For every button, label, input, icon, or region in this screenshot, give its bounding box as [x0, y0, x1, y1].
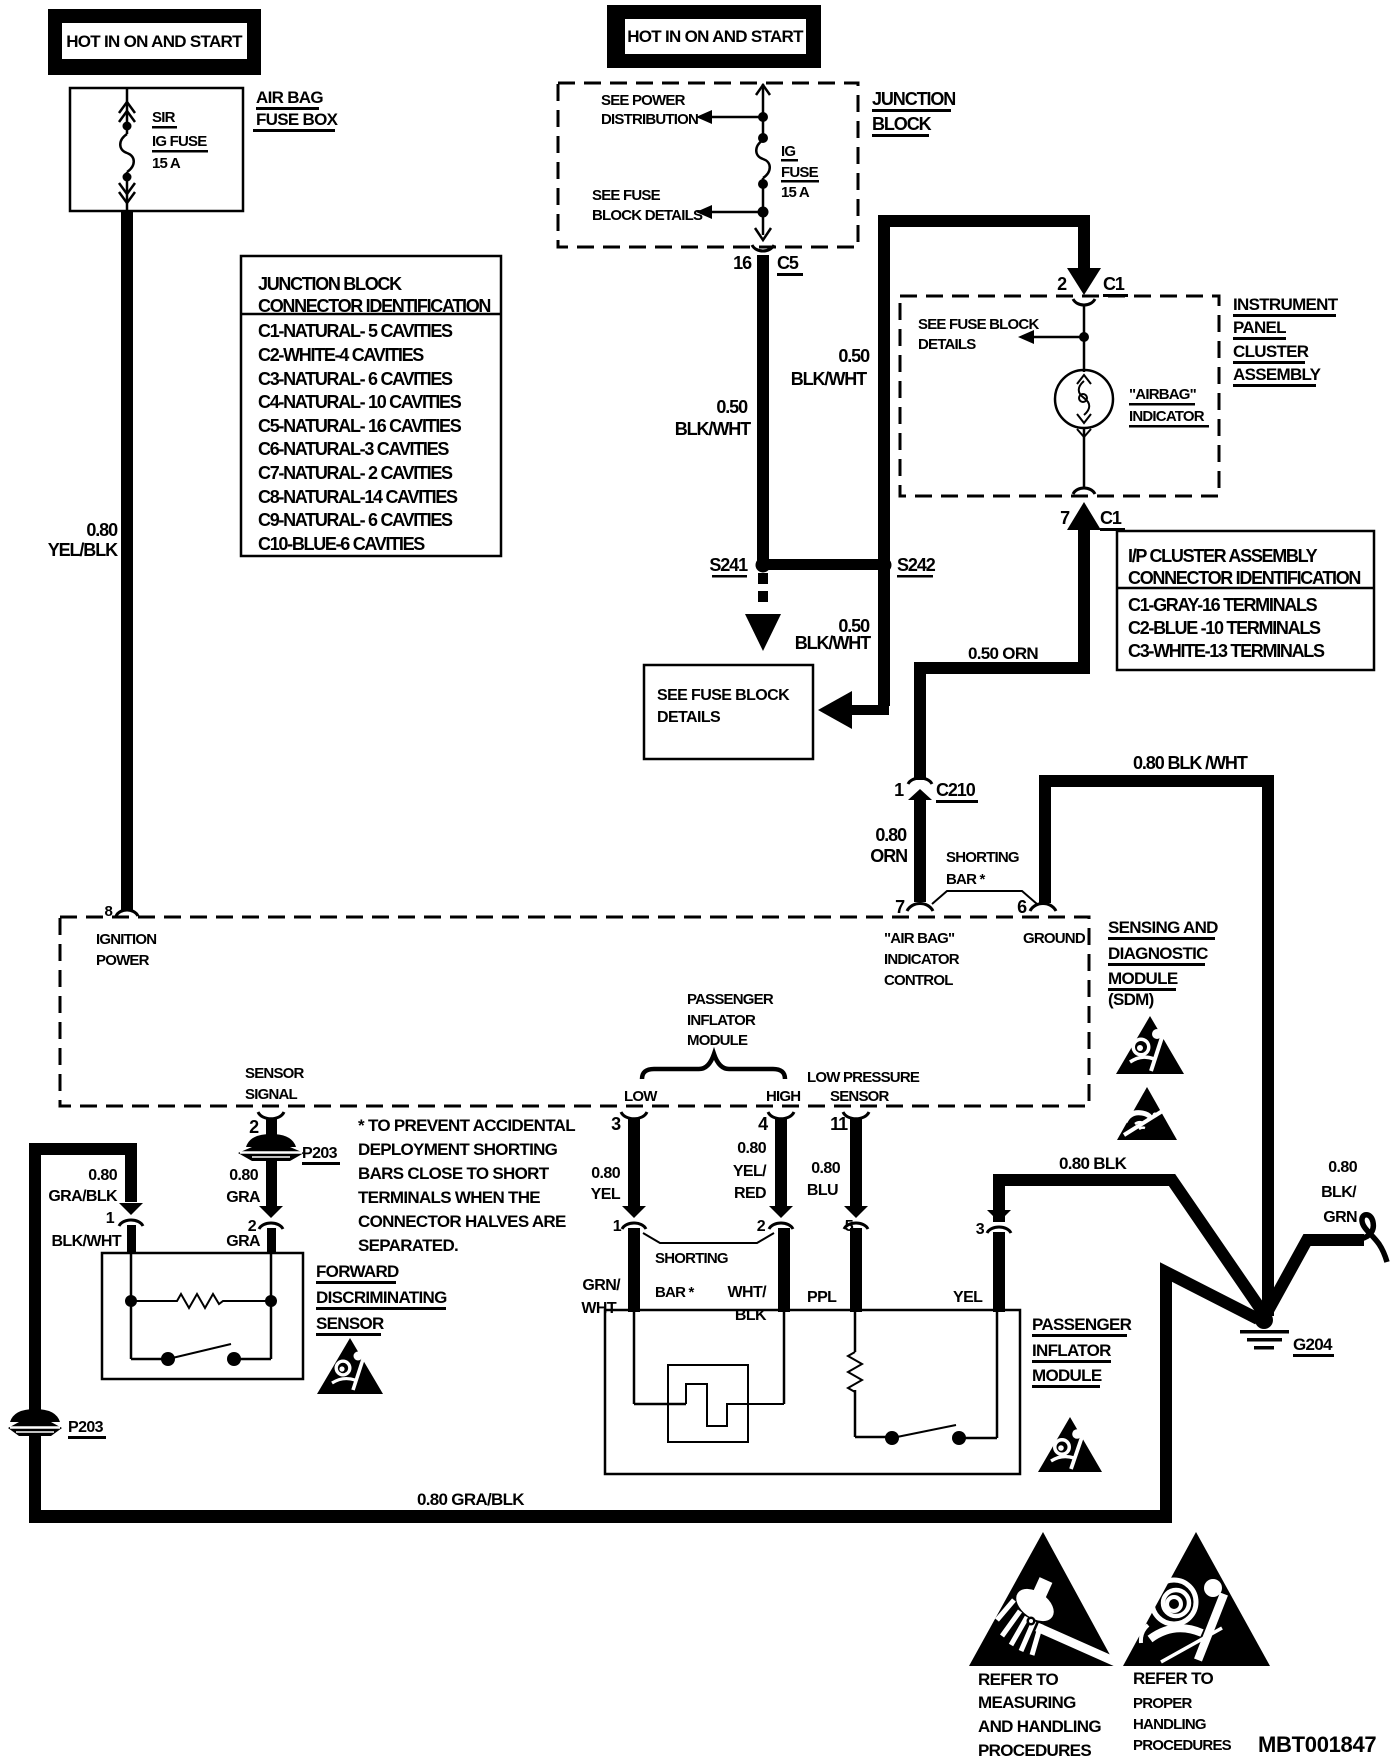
svg-text:1: 1	[613, 1218, 622, 1235]
node S242	[877, 555, 936, 578]
svg-text:FUSE BOX: FUSE BOX	[256, 110, 339, 129]
svg-text:2: 2	[1057, 274, 1067, 294]
SDM pin 4 cup (HIGH)	[758, 1112, 794, 1134]
svg-text:G204: G204	[1293, 1335, 1333, 1354]
svg-text:C210: C210	[936, 780, 976, 800]
svg-text:C10-BLUE-6 CAVITIES: C10-BLUE-6 CAVITIES	[258, 534, 425, 554]
wire into inflator pin1	[628, 1228, 640, 1312]
shorting bar symbol (inflator)	[643, 1233, 774, 1301]
label AIRBAG INDICATOR	[1129, 386, 1209, 428]
svg-text:BAR *: BAR *	[946, 871, 985, 888]
svg-text:"AIRBAG": "AIRBAG"	[1129, 386, 1197, 403]
forward discriminating sensor box	[102, 1253, 303, 1379]
label FORWARD DISCRIMINATING SENSOR	[316, 1262, 447, 1336]
wire 0.80 GRA	[226, 1160, 277, 1206]
svg-text:PPL: PPL	[807, 1289, 837, 1306]
wire 0.80 BLK (inflator pin3 to G204)	[999, 1154, 1264, 1314]
svg-text:BAR *: BAR *	[655, 1284, 694, 1301]
wire 0.80 BLU	[807, 1118, 862, 1206]
svg-text:BARS CLOSE TO SHORT: BARS CLOSE TO SHORT	[358, 1164, 550, 1183]
pin 7 cup at cluster bottom	[1073, 488, 1095, 494]
svg-text:C4-NATURAL- 10 CAVITIES: C4-NATURAL- 10 CAVITIES	[258, 392, 462, 412]
arrow see power distribution	[601, 92, 763, 128]
svg-text:15 A: 15 A	[152, 155, 181, 172]
svg-text:HANDLING: HANDLING	[1133, 1716, 1206, 1733]
svg-text:GRA/BLK: GRA/BLK	[48, 1188, 118, 1205]
wire inside cluster	[1083, 305, 1086, 372]
svg-text:C5-NATURAL- 16 CAVITIES: C5-NATURAL- 16 CAVITIES	[258, 416, 462, 436]
svg-text:GRN/: GRN/	[582, 1277, 621, 1294]
svg-text:PASSENGER: PASSENGER	[687, 991, 774, 1008]
svg-text:C1: C1	[1100, 508, 1122, 528]
svg-text:0.80: 0.80	[229, 1167, 258, 1184]
pin 6 cup at SDM top	[1017, 897, 1056, 917]
svg-text:BLK/WHT: BLK/WHT	[791, 369, 867, 389]
wire 0.80 YEL/BLK	[48, 211, 133, 911]
svg-text:YEL: YEL	[953, 1289, 983, 1306]
svg-text:CONNECTOR IDENTIFICATION: CONNECTOR IDENTIFICATION	[1128, 568, 1360, 588]
svg-text:SENSOR: SENSOR	[245, 1065, 305, 1082]
connector pair pin 1 GRN/WHT	[581, 1206, 646, 1317]
svg-text:0.50: 0.50	[716, 397, 748, 417]
see fuse block details box	[644, 665, 813, 759]
svg-text:C7-NATURAL- 2 CAVITIES: C7-NATURAL- 2 CAVITIES	[258, 463, 453, 483]
svg-text:C1-NATURAL- 5 CAVITIES: C1-NATURAL- 5 CAVITIES	[258, 321, 453, 341]
dashed wire stub below S241	[758, 573, 768, 602]
svg-text:INFLATOR: INFLATOR	[687, 1012, 756, 1029]
svg-text:DIAGNOSTIC: DIAGNOSTIC	[1108, 944, 1208, 963]
svg-text:YEL: YEL	[591, 1186, 621, 1203]
svg-text:IG FUSE: IG FUSE	[152, 133, 207, 150]
svg-text:S242: S242	[897, 555, 936, 575]
label LOW PRESSURE SENSOR	[807, 1069, 920, 1105]
svg-text:SENSOR: SENSOR	[830, 1088, 890, 1105]
ground G204	[1240, 1311, 1334, 1357]
svg-text:PROPER: PROPER	[1133, 1695, 1193, 1712]
svg-text:INDICATOR: INDICATOR	[1129, 408, 1205, 425]
node S241	[709, 555, 770, 578]
svg-text:C5: C5	[777, 253, 799, 273]
hot-in-on-and-start banner 1	[48, 9, 261, 75]
junction dot in cluster	[1079, 332, 1089, 342]
svg-text:SHORTING: SHORTING	[655, 1250, 728, 1267]
svg-text:2: 2	[249, 1117, 259, 1137]
svg-text:0.80: 0.80	[1328, 1159, 1357, 1176]
wire junction block to cluster (BLK/WHT riser)	[791, 221, 1084, 563]
svg-text:SEE FUSE BLOCK: SEE FUSE BLOCK	[918, 316, 1039, 333]
svg-text:CLUSTER: CLUSTER	[1233, 342, 1309, 361]
SDM pin labels	[96, 931, 156, 969]
wire into inflator pin3	[993, 1232, 1005, 1312]
label SENSOR SIGNAL	[245, 1065, 305, 1103]
svg-text:FORWARD: FORWARD	[316, 1262, 399, 1281]
forward sensor internals	[125, 1253, 277, 1366]
svg-text:1: 1	[894, 780, 904, 800]
svg-text:RED: RED	[734, 1185, 766, 1202]
connector pair pin 2 GRA	[226, 1206, 283, 1250]
connector C1 pin 2 label	[1057, 274, 1128, 297]
shorting bar symbol	[932, 849, 1037, 904]
wire into inflator pin5	[850, 1228, 862, 1312]
svg-text:1: 1	[106, 1210, 115, 1227]
wire S241 to S242	[763, 559, 884, 570]
svg-text:2: 2	[757, 1218, 766, 1235]
junction block connector identification table	[241, 256, 501, 556]
svg-text:16: 16	[733, 253, 752, 273]
label INSTRUMENT PANEL CLUSTER ASSEMBLY	[1233, 295, 1339, 387]
svg-text:ORN: ORN	[870, 846, 907, 866]
switch (forward sensor)	[161, 1352, 175, 1366]
svg-text:* TO PREVENT ACCIDENTAL: * TO PREVENT ACCIDENTAL	[358, 1116, 575, 1135]
air bag fuse box	[70, 88, 243, 211]
connector C5 pin 16	[733, 245, 803, 276]
svg-text:PASSENGER: PASSENGER	[1032, 1315, 1132, 1334]
wire 0.80 ORN	[870, 798, 926, 902]
wire into inflator pin2	[778, 1228, 790, 1312]
bottom wire 0.80 GRA/BLK	[29, 1490, 1172, 1523]
esd warning triangle (airbag) at SDM	[1116, 1016, 1184, 1074]
svg-text:INFLATOR: INFLATOR	[1032, 1341, 1111, 1360]
svg-text:BLU: BLU	[807, 1182, 838, 1199]
svg-text:0.80 BLK /WHT: 0.80 BLK /WHT	[1133, 753, 1248, 773]
svg-text:7: 7	[1060, 508, 1070, 528]
svg-text:INSTRUMENT: INSTRUMENT	[1233, 295, 1339, 314]
label PASSENGER INFLATOR MODULE	[1032, 1315, 1132, 1388]
svg-text:"AIR BAG": "AIR BAG"	[884, 930, 955, 947]
svg-text:JUNCTION: JUNCTION	[872, 89, 955, 109]
wire riser from bottom wire to G204	[1166, 1272, 1258, 1516]
svg-text:P203: P203	[68, 1419, 104, 1436]
svg-text:0.80: 0.80	[86, 520, 118, 540]
connector C210 pin 1	[894, 778, 978, 803]
svg-text:HOT IN ON AND START: HOT IN ON AND START	[627, 27, 804, 46]
svg-text:MODULE: MODULE	[687, 1032, 748, 1049]
connector pair pin 3 YEL	[953, 1210, 1011, 1306]
arrow see fuse block details	[592, 187, 763, 224]
arrow into cluster pin 2	[1067, 268, 1101, 295]
connector pair pin 1 BLK/WHT	[51, 1203, 143, 1250]
svg-text:MODULE: MODULE	[1108, 969, 1178, 988]
wire 0.80 YEL	[591, 1118, 640, 1206]
svg-text:YEL/BLK: YEL/BLK	[48, 540, 118, 560]
svg-text:SEPARATED.: SEPARATED.	[358, 1236, 458, 1255]
svg-text:POWER: POWER	[96, 952, 150, 969]
wire 0.80 YEL/RED	[733, 1118, 787, 1206]
svg-text:LOW: LOW	[624, 1088, 658, 1105]
svg-text:PROCEDURES: PROCEDURES	[978, 1741, 1091, 1760]
svg-text:SHORTING: SHORTING	[946, 849, 1019, 866]
svg-text:0.80: 0.80	[88, 1167, 117, 1184]
svg-text:IG: IG	[781, 143, 795, 160]
svg-text:REFER TO: REFER TO	[978, 1670, 1059, 1689]
svg-text:SEE FUSE: SEE FUSE	[592, 187, 661, 204]
svg-text:LOW PRESSURE: LOW PRESSURE	[807, 1069, 920, 1086]
svg-text:SIR: SIR	[152, 109, 176, 126]
svg-text:YEL/: YEL/	[733, 1163, 767, 1180]
wire loop 0.80 GRA/BLK (P203 to forward sensor pin1)	[35, 1149, 131, 1516]
svg-text:REFER TO: REFER TO	[1133, 1669, 1214, 1688]
svg-text:0.50 ORN: 0.50 ORN	[968, 644, 1038, 663]
connector pair pin 5 PPL	[807, 1206, 868, 1306]
label PASSENGER INFLATOR MODULE with brace	[642, 991, 785, 1079]
svg-text:C1: C1	[1103, 274, 1125, 294]
label AIR BAG FUSE BOX	[253, 88, 339, 132]
SDM pin 2 cup (sensor signal)	[249, 1112, 284, 1137]
svg-text:15 A: 15 A	[781, 184, 810, 201]
svg-text:P203: P203	[302, 1145, 338, 1162]
svg-text:HOT IN ON AND START: HOT IN ON AND START	[66, 32, 243, 51]
svg-text:MBT001847: MBT001847	[1258, 1732, 1376, 1757]
i/p cluster assembly connector identification table	[1117, 531, 1374, 670]
svg-text:WHT: WHT	[581, 1300, 616, 1317]
svg-text:DETAILS: DETAILS	[657, 709, 721, 726]
svg-text:CONNECTOR IDENTIFICATION: CONNECTOR IDENTIFICATION	[258, 296, 490, 316]
wire into forward sensor pin1	[127, 1225, 136, 1253]
svg-text:AND HANDLING: AND HANDLING	[978, 1717, 1101, 1736]
hot-in-on-and-start banner 2	[607, 5, 821, 68]
wire 0.80 BLK/WHT (ground riser)	[1045, 753, 1268, 1316]
instrument panel cluster assembly box (dashed)	[900, 296, 1219, 496]
IG fuse inside junction block	[755, 84, 819, 240]
esd warning triangle (airbag) at inflator module	[1038, 1417, 1102, 1472]
label SENSING AND DIAGNOSTIC MODULE (SDM)	[1108, 918, 1218, 1009]
svg-text:IGNITION: IGNITION	[96, 931, 156, 948]
svg-text:11: 11	[830, 1114, 848, 1134]
svg-text:0.80: 0.80	[875, 825, 907, 845]
esd warning triangle (hand, large)	[969, 1532, 1118, 1666]
SDM pin 3 cup (LOW)	[611, 1112, 647, 1134]
svg-text:BLOCK: BLOCK	[872, 114, 932, 134]
svg-text:DISTRIBUTION: DISTRIBUTION	[601, 111, 698, 128]
arrowhead into see-fuse-block box	[818, 691, 852, 729]
svg-text:BLOCK DETAILS: BLOCK DETAILS	[592, 207, 703, 224]
svg-text:C2-WHITE-4 CAVITIES: C2-WHITE-4 CAVITIES	[258, 345, 424, 365]
wire 0.80 BLK/GRN to right	[1264, 1159, 1387, 1318]
svg-text:BLK/WHT: BLK/WHT	[795, 633, 871, 653]
passenger inflator module box	[605, 1310, 1020, 1474]
svg-text:SENSING AND: SENSING AND	[1108, 918, 1218, 937]
esd warning triangle (hand) at forward sensor	[317, 1338, 383, 1394]
svg-text:0.80 GRA/BLK: 0.80 GRA/BLK	[417, 1490, 525, 1509]
svg-text:DEPLOYMENT SHORTING: DEPLOYMENT SHORTING	[358, 1140, 558, 1159]
svg-text:TERMINALS WHEN THE: TERMINALS WHEN THE	[358, 1188, 540, 1207]
label JUNCTION BLOCK	[872, 89, 955, 137]
svg-text:C8-NATURAL-14 CAVITIES: C8-NATURAL-14 CAVITIES	[258, 487, 458, 507]
svg-text:BLK/: BLK/	[1321, 1184, 1357, 1201]
wire S242 down to details arrow	[795, 565, 890, 715]
low pressure sensor internals (resistor + switch)	[848, 1310, 997, 1445]
svg-text:MODULE: MODULE	[1032, 1366, 1102, 1385]
svg-text:I/P CLUSTER ASSEMBLY: I/P CLUSTER ASSEMBLY	[1128, 546, 1318, 566]
SDM pin 11 cup (low pressure sensor)	[830, 1112, 869, 1134]
label refer to measuring	[978, 1670, 1101, 1760]
svg-text:4: 4	[758, 1114, 768, 1134]
airbag indicator lamp	[1055, 370, 1113, 488]
wire SDM pin2 to P203	[266, 1118, 277, 1136]
svg-text:BLK/WHT: BLK/WHT	[51, 1233, 121, 1250]
svg-text:C3-NATURAL- 6 CAVITIES: C3-NATURAL- 6 CAVITIES	[258, 369, 453, 389]
svg-text:0.80: 0.80	[737, 1140, 766, 1157]
svg-text:WHT/: WHT/	[728, 1284, 768, 1301]
pin 8 connector at SDM	[104, 903, 138, 920]
arrow to fuse block details	[745, 614, 781, 651]
resistor R (forward sensor)	[131, 1294, 271, 1308]
svg-text:AIR BAG: AIR BAG	[256, 88, 323, 107]
svg-text:INDICATOR: INDICATOR	[884, 951, 960, 968]
svg-text:0.50: 0.50	[838, 346, 870, 366]
esd warning triangle (airbag, large)	[1123, 1532, 1270, 1666]
svg-text:CONTROL: CONTROL	[884, 972, 953, 989]
svg-text:SEE FUSE BLOCK: SEE FUSE BLOCK	[657, 687, 790, 704]
svg-text:0.80: 0.80	[591, 1165, 620, 1182]
connector C1 pin 7 label	[1060, 508, 1125, 531]
svg-text:C6-NATURAL-3 CAVITIES: C6-NATURAL-3 CAVITIES	[258, 439, 449, 459]
connector P203 (sensor signal)	[238, 1134, 340, 1165]
svg-text:GRA: GRA	[226, 1189, 261, 1206]
svg-text:C9-NATURAL- 6 CAVITIES: C9-NATURAL- 6 CAVITIES	[258, 510, 453, 530]
svg-text:SEE POWER: SEE POWER	[601, 92, 686, 109]
svg-text:C3-WHITE-13 TERMINALS: C3-WHITE-13 TERMINALS	[1128, 641, 1325, 661]
svg-text:8: 8	[104, 903, 112, 920]
junction block (dashed)	[558, 83, 858, 247]
arrow see fuse block details (cluster)	[918, 316, 1084, 353]
sensing and diagnostic module SDM box (dashed)	[60, 917, 1089, 1106]
fuse SIR IG FUSE 15A	[119, 88, 208, 211]
svg-text:PANEL: PANEL	[1233, 318, 1286, 337]
svg-text:MEASURING: MEASURING	[978, 1693, 1076, 1712]
svg-text:HIGH: HIGH	[766, 1088, 800, 1105]
svg-text:(SDM): (SDM)	[1108, 990, 1154, 1009]
svg-text:S241: S241	[709, 555, 748, 575]
pin 2 cup inside cluster	[1073, 299, 1095, 305]
svg-text:FUSE: FUSE	[781, 164, 819, 181]
svg-text:DETAILS: DETAILS	[918, 336, 976, 353]
label refer to proper handling	[1133, 1669, 1232, 1754]
connector P203 (lower left)	[8, 1409, 106, 1439]
svg-text:GRA: GRA	[226, 1233, 261, 1250]
svg-text:0.80 BLK: 0.80 BLK	[1059, 1154, 1128, 1173]
svg-text:SIGNAL: SIGNAL	[245, 1086, 298, 1103]
svg-text:BLK/WHT: BLK/WHT	[675, 419, 751, 439]
svg-text:SENSOR: SENSOR	[316, 1314, 384, 1333]
svg-text:CONNECTOR HALVES ARE: CONNECTOR HALVES ARE	[358, 1212, 566, 1231]
svg-text:JUNCTION BLOCK: JUNCTION BLOCK	[258, 274, 402, 294]
svg-text:0.80: 0.80	[811, 1160, 840, 1177]
wire 0.50 ORN	[920, 502, 1101, 780]
svg-text:GRN: GRN	[1323, 1209, 1357, 1226]
svg-text:7: 7	[895, 897, 905, 917]
svg-text:3: 3	[976, 1221, 985, 1238]
svg-text:GROUND: GROUND	[1023, 930, 1086, 947]
svg-text:DISCRIMINATING: DISCRIMINATING	[316, 1288, 447, 1307]
svg-text:3: 3	[611, 1114, 621, 1134]
note text: shorting bars	[358, 1116, 575, 1255]
esd warning triangle (hand) at SDM	[1117, 1087, 1177, 1140]
wire into forward sensor pin2	[267, 1228, 276, 1253]
svg-text:PROCEDURES: PROCEDURES	[1133, 1737, 1232, 1754]
wire 0.50 BLK/WHT (C5 to S241)	[675, 255, 769, 563]
svg-text:C1-GRAY-16 TERMINALS: C1-GRAY-16 TERMINALS	[1128, 595, 1318, 615]
svg-text:ASSEMBLY: ASSEMBLY	[1233, 365, 1322, 384]
svg-text:6: 6	[1017, 897, 1027, 917]
inflator squib internals	[634, 1310, 784, 1442]
svg-text:C2-BLUE -10 TERMINALS: C2-BLUE -10 TERMINALS	[1128, 618, 1321, 638]
pin 7 cup at SDM top	[895, 897, 933, 917]
connector pair pin 2 WHT/BLK	[728, 1206, 793, 1324]
